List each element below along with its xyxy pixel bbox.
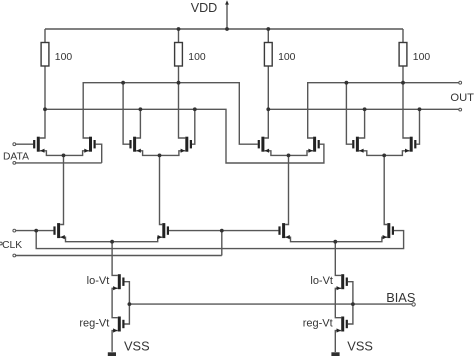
svg-text:OUT: OUT bbox=[450, 92, 474, 104]
svg-text:DATA: DATA bbox=[3, 151, 29, 162]
svg-text:100: 100 bbox=[278, 52, 296, 63]
svg-text:reg-Vt: reg-Vt bbox=[79, 318, 109, 330]
svg-text:lo-Vt: lo-Vt bbox=[87, 275, 110, 287]
svg-text:100: 100 bbox=[55, 52, 73, 63]
svg-text:VSS: VSS bbox=[347, 339, 373, 354]
svg-text:100: 100 bbox=[188, 52, 206, 63]
svg-text:VSS: VSS bbox=[124, 339, 150, 354]
svg-text:VDD: VDD bbox=[191, 1, 218, 15]
svg-text:CLK: CLK bbox=[2, 240, 22, 251]
svg-text:BIAS: BIAS bbox=[386, 290, 415, 305]
svg-text:lo-Vt: lo-Vt bbox=[310, 275, 333, 287]
svg-text:reg-Vt: reg-Vt bbox=[303, 318, 333, 330]
svg-text:100: 100 bbox=[413, 52, 431, 63]
